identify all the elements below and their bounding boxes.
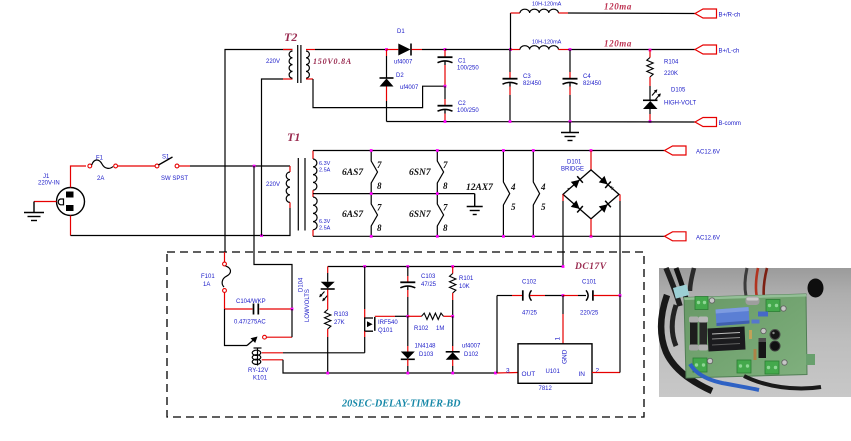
- wire HV top rail to choke node: [445, 49, 511, 51]
- svg-text:10H-120mA: 10H-120mA: [532, 2, 562, 8]
- wire C104 left down to relay contact: [225, 309, 248, 346]
- wire relay coil top to MOSFET source: [262, 352, 283, 354]
- node C1/C2 midpoint: [444, 85, 447, 88]
- relay contact (N.O.): [247, 309, 292, 346]
- cyan tape on cable: [673, 284, 689, 298]
- electrolytic caps: [770, 330, 780, 340]
- node C2 bottom: [444, 120, 447, 123]
- svg-text:2: 2: [596, 368, 600, 375]
- svg-text:20SEC-DELAY-TIMER-BD: 20SEC-DELAY-TIMER-BD: [341, 399, 461, 410]
- port AC12.6V (bottom): [665, 232, 721, 242]
- capacitor C104/WKP 0.47/275AC: [225, 299, 293, 326]
- svg-text:47/25: 47/25: [522, 311, 538, 317]
- wire HV bottom rail to B-comm: [387, 121, 696, 124]
- regulator U101 7812: [506, 337, 600, 393]
- port B+/R-ch: [695, 9, 740, 19]
- capacitor C2 100/250: [438, 86, 480, 121]
- heater 6AS7 lower pins 7,8: [371, 194, 382, 237]
- svg-text:12AX7: 12AX7: [466, 183, 494, 193]
- port B+/L-ch: [695, 45, 739, 55]
- fuse F101 1A: [201, 252, 231, 309]
- capacitor C3 82/450: [503, 50, 543, 122]
- svg-text:S1: S1: [162, 155, 170, 161]
- ground HV rail: [561, 122, 579, 141]
- diode D2 uf4007: [380, 50, 420, 122]
- ground at J1: [24, 202, 44, 221]
- svg-text:IRF540: IRF540: [378, 320, 398, 326]
- port B-comm: [695, 118, 741, 128]
- svg-text:150V0.8A: 150V0.8A: [313, 57, 352, 66]
- svg-text:BRIDGE: BRIDGE: [561, 167, 584, 173]
- junction dots heater rails: [370, 149, 373, 152]
- node R101 top rail: [451, 265, 454, 268]
- svg-text:uf4007: uf4007: [400, 85, 419, 91]
- svg-text:R102: R102: [414, 326, 429, 332]
- wire bridge minus down to timer board: [562, 194, 564, 201]
- svg-text:120ma: 120ma: [604, 39, 632, 49]
- svg-text:D1: D1: [397, 29, 405, 35]
- svg-text:uf4007: uf4007: [394, 60, 413, 66]
- wire J1 hot up to fuse F1: [71, 166, 87, 188]
- wires top center: [745, 268, 747, 296]
- svg-text:10K: 10K: [459, 284, 470, 290]
- svg-text:B+/L-ch: B+/L-ch: [719, 49, 740, 55]
- diode D1 uf4007: [387, 29, 446, 66]
- svg-text:AC12.6V: AC12.6V: [696, 150, 720, 156]
- connector J1 220V-IN: [38, 174, 85, 216]
- svg-text:8: 8: [443, 181, 448, 191]
- TO-220 transistor: [759, 338, 767, 358]
- svg-text:-: -: [567, 184, 570, 193]
- wire T2 primary top to F101 feed: [225, 50, 293, 253]
- resistor R104 220K: [647, 50, 679, 87]
- svg-text:C104/WKP: C104/WKP: [236, 299, 266, 305]
- wire heater bottom rail: [313, 235, 665, 237]
- svg-text:uf4007: uf4007: [462, 344, 481, 350]
- svg-text:AC12.6V: AC12.6V: [696, 235, 720, 241]
- svg-text:T1: T1: [287, 130, 300, 144]
- blue relay: [716, 307, 750, 326]
- svg-text:LOWVOLTS: LOWVOLTS: [305, 289, 311, 322]
- wire GND pin down from C102/C101 node: [562, 296, 564, 315]
- small resistors: [749, 330, 752, 339]
- svg-text:D103: D103: [419, 352, 434, 358]
- svg-text:D101: D101: [567, 160, 582, 166]
- svg-text:8: 8: [443, 223, 448, 233]
- svg-text:U101: U101: [546, 369, 561, 375]
- wire choke to B+/L-ch: [568, 49, 695, 51]
- black cable loop left: [661, 295, 712, 391]
- node C102 bottom rail: [494, 372, 497, 375]
- photo of 20sec delay timer PCB: [659, 268, 851, 397]
- svg-text:4: 4: [510, 182, 516, 192]
- svg-text:R103: R103: [334, 312, 349, 318]
- svg-text:8: 8: [377, 181, 382, 191]
- svg-text:0.47/275AC: 0.47/275AC: [234, 320, 266, 326]
- svg-text:Q101: Q101: [378, 328, 393, 334]
- transformer T2: [266, 30, 352, 83]
- terminal blocks: [693, 297, 780, 375]
- svg-text:RY-12V: RY-12V: [248, 368, 268, 374]
- svg-text:100/250: 100/250: [457, 66, 479, 72]
- svg-text:7: 7: [443, 203, 448, 213]
- svg-text:6SN7: 6SN7: [409, 168, 432, 178]
- svg-text:C3: C3: [523, 74, 531, 80]
- relay coil RY-12V K101: [248, 348, 268, 382]
- black relay: [708, 327, 746, 352]
- transformer T1: [266, 130, 331, 236]
- svg-text:C102: C102: [522, 280, 537, 286]
- svg-text:6AS7: 6AS7: [342, 210, 364, 220]
- svg-text:1N4148: 1N4148: [415, 344, 437, 350]
- wire relay coil bottom to +12 rail: [262, 359, 283, 361]
- svg-text:82/450: 82/450: [523, 81, 542, 87]
- wire heater top rail: [313, 150, 665, 152]
- node C4 top: [569, 48, 572, 51]
- svg-text:82/450: 82/450: [583, 81, 602, 87]
- svg-text:4: 4: [540, 182, 546, 192]
- wire timer top rail: [328, 266, 563, 268]
- resistor R101 10K: [450, 267, 475, 316]
- ground at 12AX7 mid rail: [467, 194, 483, 215]
- svg-text:3: 3: [506, 368, 510, 375]
- fuse holders: [690, 320, 698, 347]
- wire J1 to ground: [34, 201, 57, 203]
- inductor choke 10H-120mA (lower): [511, 40, 568, 50]
- heater 12AX7 pins 4,5 (right): [533, 151, 546, 237]
- heater 6AS7 upper pins 7,8: [371, 151, 382, 194]
- node D102 bottom rail: [451, 372, 454, 375]
- svg-text:47/25: 47/25: [421, 282, 437, 288]
- svg-text:27K: 27K: [334, 320, 345, 326]
- node main line to timer feed: [253, 165, 256, 168]
- LED D104 LOWVOLTS: [299, 267, 335, 323]
- blue wire bottom: [690, 364, 759, 390]
- svg-text:2.5A: 2.5A: [319, 226, 331, 232]
- node D103 bottom rail: [406, 372, 409, 375]
- svg-text:D2: D2: [396, 73, 404, 79]
- node C103 top rail: [406, 265, 409, 268]
- svg-text:120ma: 120ma: [604, 2, 632, 12]
- svg-text:5: 5: [511, 202, 516, 212]
- LED D105 HIGH-VOLT: [643, 86, 697, 122]
- svg-text:SW SPST: SW SPST: [161, 176, 188, 182]
- node C101 right / bridge plus: [619, 294, 622, 297]
- capacitor C101 220/25: [563, 280, 620, 317]
- svg-text:+: +: [610, 184, 615, 193]
- node gate / C103 / R102 / D103: [406, 315, 409, 318]
- svg-text:J1: J1: [43, 174, 50, 180]
- capacitor C1 100/250: [438, 50, 480, 87]
- svg-text:C4: C4: [583, 74, 591, 80]
- node R101/R102/D102: [451, 315, 454, 318]
- svg-text:6.3V: 6.3V: [319, 161, 331, 167]
- svg-text:8: 8: [377, 223, 382, 233]
- capacitor C4 82/450: [563, 50, 603, 122]
- wire main line down into timer board: [254, 166, 292, 309]
- svg-text:K101: K101: [253, 376, 268, 382]
- node choke junction: [509, 48, 512, 51]
- MOSFET Q101 IRF540: [365, 267, 408, 353]
- green PCB: [684, 294, 807, 378]
- silver component: [746, 297, 760, 306]
- svg-text:B-comm: B-comm: [719, 121, 741, 127]
- svg-text:220V-IN: 220V-IN: [38, 181, 60, 187]
- heater 6SN7 lower pins 7,8: [437, 194, 448, 237]
- svg-text:C2: C2: [458, 101, 466, 107]
- svg-text:R101: R101: [459, 276, 474, 282]
- svg-text:6.3V: 6.3V: [319, 219, 331, 225]
- svg-text:220K: 220K: [664, 71, 678, 77]
- svg-text:220V: 220V: [266, 59, 280, 65]
- svg-text:F1: F1: [96, 156, 104, 162]
- node D1/D2/T2: [385, 48, 388, 51]
- wire T2 secondary bottom to C1/C2 midpoint: [306, 78, 313, 80]
- svg-text:220/25: 220/25: [580, 311, 599, 317]
- svg-text:F101: F101: [201, 274, 215, 280]
- node neutral / T2 primary return: [260, 234, 263, 237]
- screws: [707, 298, 787, 365]
- diode D103 1N4148: [401, 316, 436, 373]
- svg-text:R104: R104: [664, 60, 679, 66]
- wire heater mid rail: [313, 193, 475, 195]
- wire IN pin to bridge plus: [592, 372, 620, 374]
- svg-text:7: 7: [443, 160, 448, 170]
- svg-text:IN: IN: [579, 371, 586, 378]
- bridge rectifier D101: [561, 151, 619, 237]
- wire bridge plus down to timer board: [619, 194, 621, 201]
- node MOSFET drain / top rail: [363, 265, 366, 268]
- svg-text:D102: D102: [464, 352, 479, 358]
- svg-text:2A: 2A: [97, 176, 104, 182]
- svg-text:C103: C103: [421, 274, 436, 280]
- wire F1 to S1: [118, 165, 156, 167]
- svg-text:OUT: OUT: [522, 371, 536, 378]
- svg-text:D105: D105: [671, 88, 686, 94]
- wire choke to B+/R-ch: [568, 12, 695, 15]
- svg-text:220V: 220V: [266, 182, 280, 188]
- node C1 top: [444, 48, 447, 51]
- switch S1 SW SPST: [155, 155, 188, 183]
- svg-text:7: 7: [377, 203, 382, 213]
- svg-text:HIGH-VOLT: HIGH-VOLT: [664, 101, 697, 107]
- inductor choke 10H-120mA (upper): [511, 2, 569, 14]
- capacitor C102 47/25: [497, 280, 563, 374]
- node R104 top: [649, 49, 652, 52]
- svg-text:7: 7: [377, 160, 382, 170]
- node R103 bottom rail: [326, 372, 329, 375]
- svg-text:2.5A: 2.5A: [319, 168, 331, 174]
- port AC12.6V (top): [665, 146, 721, 156]
- heater 12AX7 pins 4,5 (left): [503, 151, 516, 237]
- svg-text:DC17V: DC17V: [574, 262, 607, 272]
- wire S1 to T1 primary (main switched line): [179, 165, 190, 167]
- wire T2 secondary top to D1 node: [306, 49, 315, 51]
- svg-text:6AS7: 6AS7: [342, 168, 364, 178]
- node bridge minus / top rail: [562, 265, 565, 268]
- wire up to choke L1: [510, 13, 512, 50]
- svg-text:B+/R-ch: B+/R-ch: [719, 13, 741, 19]
- fuse F1 2A: [88, 156, 118, 183]
- svg-text:1A: 1A: [203, 282, 210, 288]
- svg-text:C1: C1: [458, 59, 466, 65]
- svg-text:D104: D104: [299, 277, 305, 292]
- resistor R102 1M: [408, 313, 453, 332]
- svg-text:C101: C101: [582, 280, 597, 286]
- black wire bottom right: [744, 376, 821, 389]
- node C4/ground bottom: [569, 120, 572, 123]
- node C3 bottom: [509, 120, 512, 123]
- resistor R103 27K: [325, 310, 350, 374]
- svg-text:6SN7: 6SN7: [409, 210, 432, 220]
- svg-text:1M: 1M: [436, 326, 444, 332]
- wire T2 primary bottom down to neutral: [262, 79, 284, 236]
- svg-text:T2: T2: [284, 30, 297, 44]
- wire J1 neutral to T1 primary bottom: [70, 216, 72, 236]
- diode D102 uf4007: [446, 316, 481, 373]
- node C102/C101/GND: [562, 294, 565, 297]
- cables top left: [666, 268, 680, 306]
- svg-text:5: 5: [541, 202, 546, 212]
- svg-text:100/250: 100/250: [457, 108, 479, 114]
- svg-text:7812: 7812: [539, 386, 553, 392]
- svg-text:10H-120mA: 10H-120mA: [532, 40, 562, 46]
- svg-text:1: 1: [555, 337, 562, 341]
- small blue components: [758, 312, 768, 317]
- capacitor C103 47/25: [400, 267, 436, 317]
- node D105 bottom: [649, 120, 652, 123]
- black oval hole top right: [808, 279, 824, 298]
- heater 6SN7 upper pins 7,8: [437, 151, 448, 194]
- node C104 right: [291, 308, 294, 311]
- dashed box 20SEC-DELAY-TIMER-BD: [167, 252, 644, 417]
- svg-text:GND: GND: [562, 349, 569, 364]
